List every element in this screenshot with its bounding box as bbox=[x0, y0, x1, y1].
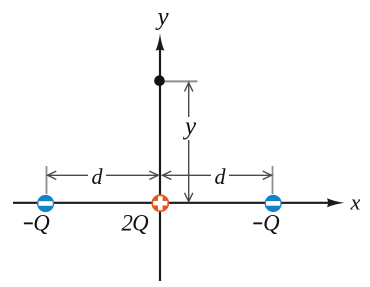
svg-text:Q: Q bbox=[33, 210, 50, 235]
svg-text:y: y bbox=[154, 4, 169, 31]
svg-text:Q: Q bbox=[263, 210, 280, 235]
svg-text:y: y bbox=[182, 113, 197, 140]
svg-text:d: d bbox=[92, 164, 104, 189]
svg-text:d: d bbox=[215, 164, 227, 189]
svg-text:x: x bbox=[350, 190, 361, 215]
svg-text:Q: Q bbox=[132, 210, 149, 235]
